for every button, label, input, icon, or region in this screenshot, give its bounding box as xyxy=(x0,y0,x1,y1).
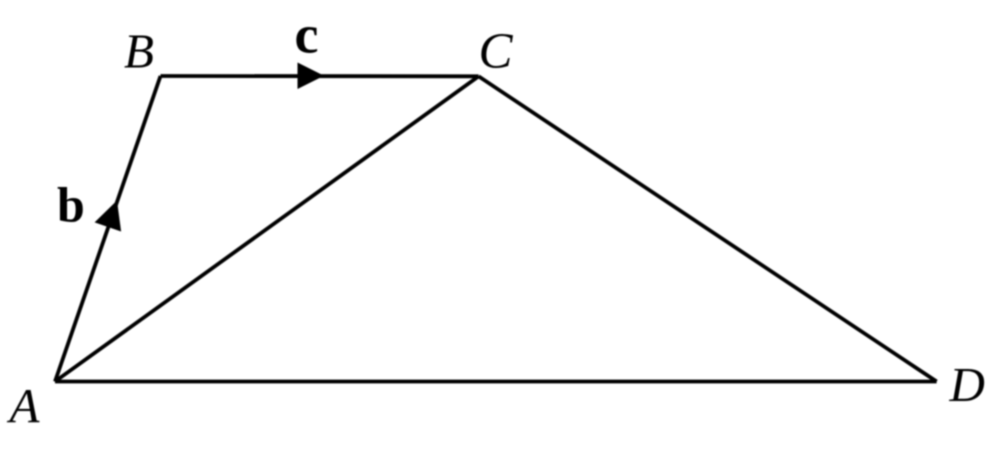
wire side CD xyxy=(479,76,937,381)
svg-text:b: b xyxy=(57,177,85,233)
svg-text:A: A xyxy=(7,378,41,433)
svg-text:D: D xyxy=(949,357,985,412)
wire side BC xyxy=(161,74,479,78)
wire diagonal AC xyxy=(55,76,479,381)
arrowhead vector c xyxy=(298,63,325,90)
svg-text:c: c xyxy=(295,5,319,65)
wire side DA xyxy=(55,380,937,384)
svg-text:C: C xyxy=(479,24,514,80)
arrowhead vector b xyxy=(95,201,122,232)
svg-text:B: B xyxy=(124,24,154,79)
wire side AB xyxy=(55,76,161,382)
